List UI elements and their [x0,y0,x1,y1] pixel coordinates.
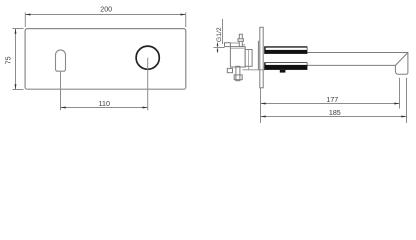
G1/2 dim vertical line [217,43,219,53]
dim 185 arrow right [401,116,406,118]
dim 177 right extension line [399,78,401,109]
dim 110 line [61,107,148,109]
handle bar (top, black) [264,46,307,54]
svg-text:75: 75 [5,56,13,64]
tab below collar [280,70,286,73]
dim 75 arrow bottom [15,84,17,89]
dim 75 extension line bottom [13,89,24,91]
dim 75 line [15,29,17,90]
dim 177 line [261,103,400,105]
dim 200 line [25,14,185,16]
dim 177 arrow left [261,103,266,105]
spout collar white stripe [266,63,307,65]
G1/2 arrow down [217,50,219,53]
spout tube [266,53,408,75]
valve body [230,47,245,67]
svg-text:110: 110 [99,100,110,108]
dim 177 arrow right [394,103,399,105]
rear flange line [257,41,259,70]
bottom left stub [227,68,232,72]
dim 75 arrow top [15,29,17,34]
bottom block [234,75,242,80]
spout circle front [136,46,159,69]
handle lever front [56,50,66,71]
dim 200 extension line right [185,13,187,28]
bottom pipe [236,66,240,80]
handle bar white stripe [266,48,307,50]
G1/2 upper extension line [222,19,224,44]
dim 110 arrow left [61,107,66,109]
dim 177/185 left extension line [260,88,262,123]
valve neck rib [248,50,250,67]
svg-text:200: 200 [100,6,112,14]
spout mitre line [395,53,408,66]
fitting to pipe line [230,42,239,44]
svg-text:G1/2: G1/2 [216,27,223,42]
top pipe collar [238,39,244,42]
dim 110 extension line from circle center [147,58,149,111]
inlet fitting stub [225,43,231,47]
dim 75 extension line top [13,28,24,30]
wall plate side [260,27,263,88]
top pipe [239,34,242,46]
neck lower step [248,66,250,70]
pipe to neck line [242,44,245,46]
dim 110 extension line from handle [60,72,62,111]
dim 200 extension line left [24,13,26,28]
svg-text:177: 177 [326,96,338,104]
dim 185 line [261,116,407,118]
dim 110 arrow right [143,107,148,109]
G1/2 extension line [214,47,225,49]
wall plate front [25,29,186,90]
inlet stub lower edge [225,46,231,48]
dim 200 arrow right [181,14,186,16]
dim 185 arrow left [261,116,266,118]
valve neck [245,50,252,67]
dim 185 right extension line [406,78,408,123]
G1/2 arrow up [217,43,219,46]
line under bottom bar [242,69,265,71]
spout collar bar (bottom, black) [264,62,307,70]
dim 200 arrow left [25,14,30,16]
valve body inner top line [230,47,245,49]
svg-text:185: 185 [329,109,341,117]
